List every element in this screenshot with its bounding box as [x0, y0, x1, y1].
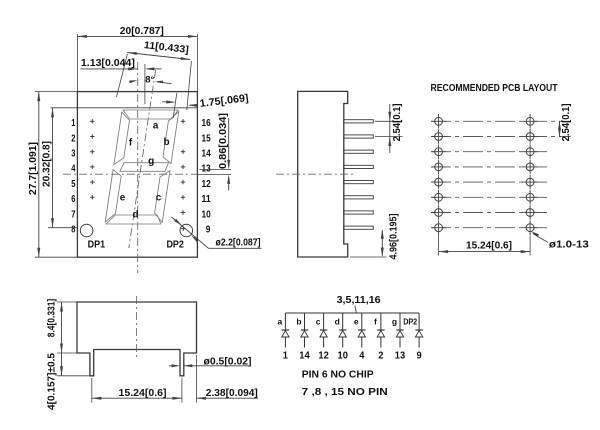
svg-text:14: 14 [202, 148, 211, 160]
svg-text:1: 1 [283, 349, 288, 361]
svg-text:8: 8 [71, 224, 75, 236]
svg-text:4[0.157]±0.5: 4[0.157]±0.5 [46, 353, 58, 410]
svg-text:11: 11 [202, 193, 211, 205]
svg-text:PIN 6 NO CHIP: PIN 6 NO CHIP [302, 368, 374, 380]
svg-text:20[0.787]: 20[0.787] [120, 26, 164, 37]
svg-text:RECOMMENDED PCB LAYOUT: RECOMMENDED PCB LAYOUT [431, 83, 558, 94]
svg-text:13: 13 [202, 163, 211, 175]
svg-text:12: 12 [318, 349, 329, 361]
svg-text:d: d [335, 316, 340, 326]
svg-text:ø1.0-13: ø1.0-13 [549, 238, 589, 250]
svg-text:10: 10 [338, 349, 349, 361]
svg-text:b: b [296, 316, 301, 326]
svg-text:15: 15 [202, 132, 211, 144]
svg-text:3,5,11,16: 3,5,11,16 [337, 295, 381, 306]
svg-text:8°: 8° [145, 74, 154, 85]
svg-text:g: g [392, 316, 397, 326]
svg-text:e: e [354, 316, 359, 326]
svg-text:0.86[0.034]: 0.86[0.034] [217, 113, 229, 169]
svg-text:f: f [374, 316, 377, 326]
svg-text:a: a [153, 121, 159, 132]
svg-text:DP2: DP2 [403, 316, 417, 326]
svg-text:4.96[0.195]: 4.96[0.195] [388, 214, 400, 260]
svg-text:4: 4 [71, 163, 75, 175]
svg-text:27.7[1.091]: 27.7[1.091] [27, 142, 39, 195]
svg-text:g: g [148, 156, 154, 167]
svg-text:10: 10 [202, 208, 211, 220]
svg-text:9: 9 [417, 349, 422, 361]
svg-text:c: c [156, 193, 162, 204]
svg-text:2.54[0.1]: 2.54[0.1] [391, 103, 403, 141]
svg-text:8.4[0.331]: 8.4[0.331] [46, 299, 58, 338]
svg-text:2: 2 [378, 349, 383, 361]
svg-text:6: 6 [71, 193, 75, 205]
svg-text:DP2: DP2 [166, 239, 184, 251]
svg-text:20.32[0.8]: 20.32[0.8] [40, 141, 52, 187]
svg-text:e: e [120, 193, 126, 204]
svg-text:c: c [316, 316, 321, 326]
svg-text:7 ,8 , 15 NO PIN: 7 ,8 , 15 NO PIN [302, 386, 388, 398]
svg-text:1.13[0.044]: 1.13[0.044] [81, 57, 135, 69]
svg-text:7: 7 [71, 208, 75, 220]
svg-text:2.38[0.094]: 2.38[0.094] [206, 387, 258, 399]
svg-text:9: 9 [206, 224, 211, 236]
svg-text:b: b [163, 137, 169, 148]
svg-text:d: d [132, 210, 138, 221]
svg-text:15.24[0.6]: 15.24[0.6] [466, 239, 512, 251]
svg-text:5: 5 [71, 178, 75, 190]
svg-text:1: 1 [71, 117, 75, 129]
svg-text:2: 2 [71, 132, 75, 144]
svg-text:13: 13 [395, 349, 406, 361]
svg-text:16: 16 [202, 117, 211, 129]
svg-text:14: 14 [299, 349, 310, 361]
svg-text:3: 3 [71, 148, 75, 160]
svg-text:DP1: DP1 [88, 239, 106, 251]
svg-text:15.24[0.6]: 15.24[0.6] [119, 387, 167, 399]
svg-text:a: a [278, 316, 283, 326]
svg-text:4: 4 [359, 349, 364, 361]
svg-text:2.54[0.1]: 2.54[0.1] [560, 103, 572, 141]
svg-text:12: 12 [202, 178, 211, 190]
svg-text:ø2.2[0.087]: ø2.2[0.087] [216, 237, 261, 249]
